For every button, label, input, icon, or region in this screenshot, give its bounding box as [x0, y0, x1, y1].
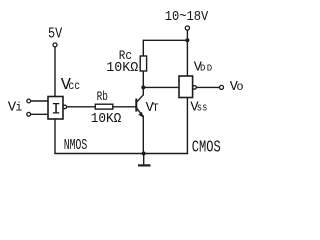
svg-text:5V: 5V [48, 26, 62, 43]
svg-text:cc: cc [68, 80, 80, 93]
svg-text:i: i [15, 102, 22, 115]
wire Rc bottom to collector node [142, 71, 144, 87]
svg-text:DD: DD [200, 63, 212, 73]
wire 5V supply stem [54, 47, 56, 97]
ground [138, 164, 151, 166]
wire bottom ground rail [54, 153, 188, 155]
buffer U2 CMOS box [179, 76, 193, 98]
inverter U1 output bubble [63, 105, 67, 109]
svg-text:ss: ss [197, 103, 208, 115]
junction collector node [141, 85, 145, 89]
wire top rail [143, 39, 188, 41]
svg-text:I: I [51, 101, 61, 119]
wire collector node to CMOS input [143, 86, 179, 88]
wire CMOS bottom to ground rail [186, 98, 188, 155]
wire supply down to CMOS box top [186, 40, 188, 76]
svg-text:T: T [152, 103, 159, 115]
resistor Rb [95, 104, 113, 109]
wire Rb to VT base [113, 106, 136, 108]
wire I output to Rb [67, 106, 96, 108]
svg-text:NMOS: NMOS [64, 138, 88, 154]
transistor VT [136, 87, 143, 153]
resistor Rc [140, 56, 146, 71]
wire CMOS output to Vo terminal [196, 86, 219, 88]
wire Vi lower input [31, 113, 48, 115]
terminal Vi upper [27, 99, 31, 103]
junction ground node [142, 152, 146, 156]
wire ground stem [143, 154, 145, 166]
wire supply terminal to top rail [186, 30, 188, 41]
inverter U1 NMOS box [48, 97, 63, 120]
svg-text:Rb: Rb [97, 90, 108, 104]
terminal 10~18V [185, 26, 189, 30]
wire I box bottom to ground rail [54, 119, 56, 154]
wire Vi upper input [31, 100, 48, 102]
svg-text:10~18V: 10~18V [165, 9, 209, 25]
svg-text:10KΩ: 10KΩ [91, 112, 122, 127]
svg-text:CMOS: CMOS [192, 139, 221, 158]
terminal Vo [220, 85, 224, 89]
buffer U2 output bubble [193, 86, 197, 90]
transistor VT emitter arrow [138, 112, 143, 118]
terminal 5V [53, 43, 57, 47]
wire top rail down to Rc [142, 40, 144, 56]
svg-text:10KΩ: 10KΩ [106, 61, 138, 76]
junction supply node [185, 38, 189, 42]
terminal Vi lower [27, 112, 31, 116]
svg-text:o: o [236, 80, 243, 94]
